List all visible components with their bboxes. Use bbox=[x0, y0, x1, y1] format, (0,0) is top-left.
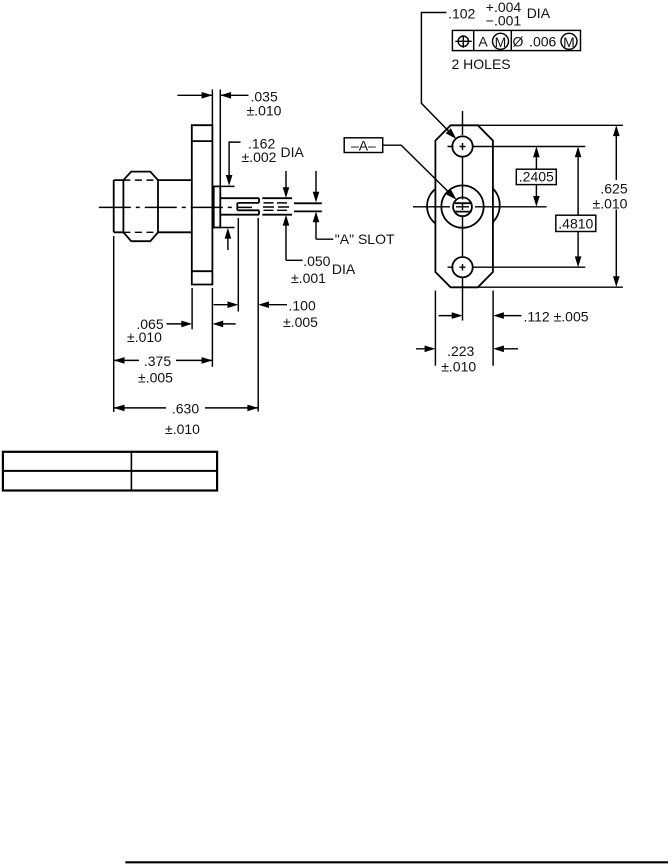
svg-text:±.010: ±.010 bbox=[441, 359, 476, 375]
svg-text:"A" SLOT: "A" SLOT bbox=[335, 231, 395, 247]
svg-text:.100: .100 bbox=[289, 297, 316, 313]
svg-text:±.002: ±.002 bbox=[242, 149, 277, 165]
svg-text:Ø: Ø bbox=[513, 34, 524, 50]
svg-text:DIA: DIA bbox=[281, 144, 305, 160]
svg-text:±.010: ±.010 bbox=[593, 195, 628, 211]
svg-text:M: M bbox=[495, 34, 507, 50]
svg-text:.625: .625 bbox=[600, 181, 627, 197]
svg-text:DIA: DIA bbox=[527, 5, 551, 21]
svg-text:±.010: ±.010 bbox=[127, 329, 162, 345]
svg-text:.630: .630 bbox=[172, 400, 199, 416]
svg-text:M: M bbox=[563, 34, 575, 50]
svg-text:±.001: ±.001 bbox=[291, 270, 326, 286]
svg-text:.4810: .4810 bbox=[558, 215, 593, 231]
svg-text:±.005: ±.005 bbox=[138, 370, 173, 386]
svg-text:±.010: ±.010 bbox=[165, 421, 200, 437]
svg-text:−.001: −.001 bbox=[486, 12, 522, 28]
svg-text:–A–: –A– bbox=[351, 138, 376, 154]
svg-text:±.005: ±.005 bbox=[283, 314, 318, 330]
svg-text:.375: .375 bbox=[144, 353, 171, 369]
svg-text:.006: .006 bbox=[529, 34, 556, 50]
svg-text:.2405: .2405 bbox=[519, 169, 554, 185]
svg-text:DIA: DIA bbox=[332, 261, 356, 277]
svg-text:±.010: ±.010 bbox=[247, 103, 282, 119]
svg-text:.112 ±.005: .112 ±.005 bbox=[524, 309, 589, 325]
svg-text:.223: .223 bbox=[447, 343, 474, 359]
svg-text:2 HOLES: 2 HOLES bbox=[452, 56, 511, 72]
svg-text:A: A bbox=[478, 34, 488, 50]
svg-text:.102: .102 bbox=[448, 5, 475, 21]
svg-text:.050: .050 bbox=[303, 253, 330, 269]
